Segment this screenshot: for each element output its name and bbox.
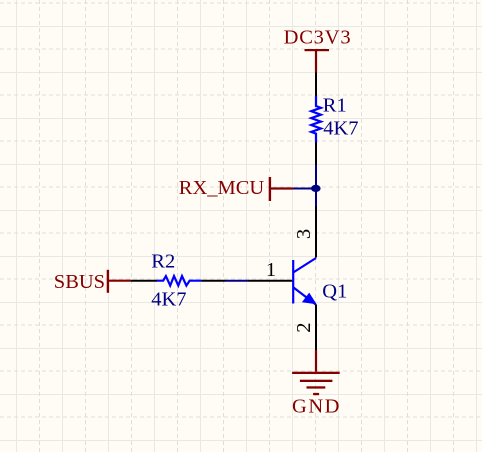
power port DC3V3 bar symbol [305,49,330,51]
power port DC3V3 stem [315,50,317,73]
wire from R1 pin 2 to Q1 collector (vertical) [315,165,317,206]
transistor Q1 collector pin (pin 3) [315,206,317,258]
resistor R1 pin 1 (top) [315,73,317,97]
transistor Q1 base bar [292,260,294,304]
resistor R2 pin 2 (right) [202,280,226,282]
svg-text:3: 3 [293,229,315,239]
ground symbol bar 4 [313,393,319,395]
svg-text:DC3V3: DC3V3 [284,27,352,49]
port RX_MCU lead line [271,187,293,189]
svg-text:Q1: Q1 [322,281,347,303]
svg-text:SBUS: SBUS [54,271,105,293]
wire from R2 to Q1 base [226,280,249,282]
svg-text:GND: GND [292,396,341,418]
svg-text:1: 1 [266,259,276,281]
ground symbol bar 3 [307,386,326,388]
ground symbol bar 1 [292,372,340,374]
port SBUS lead line [109,280,131,282]
wire from RX_MCU port to junction [293,188,313,190]
ground symbol bar 2 [300,380,333,382]
transistor Q1 emitter arrowhead [302,293,317,305]
transistor Q1 emitter pin (pin 2) [315,304,317,350]
svg-text:4K7: 4K7 [323,117,358,139]
resistor R2 body [157,276,202,286]
junction dot at RX_MCU node [311,185,321,192]
svg-text:R2: R2 [151,251,175,273]
svg-text:2: 2 [293,322,315,332]
resistor R1 body [311,96,321,143]
ground symbol stem [315,350,317,372]
transistor Q1 base pin (pin 1) [248,280,293,282]
transistor Q1 emitter stroke [293,287,315,304]
svg-text:4K7: 4K7 [151,289,186,311]
svg-text:R1: R1 [323,94,347,116]
resistor R1 pin 2 (bottom) [315,143,317,166]
resistor R2 pin 1 (left) [131,280,157,282]
svg-text:RX_MCU: RX_MCU [179,177,265,199]
transistor Q1 collector stroke [293,258,316,273]
port SBUS bar [107,270,109,293]
port RX_MCU bar [269,177,271,201]
